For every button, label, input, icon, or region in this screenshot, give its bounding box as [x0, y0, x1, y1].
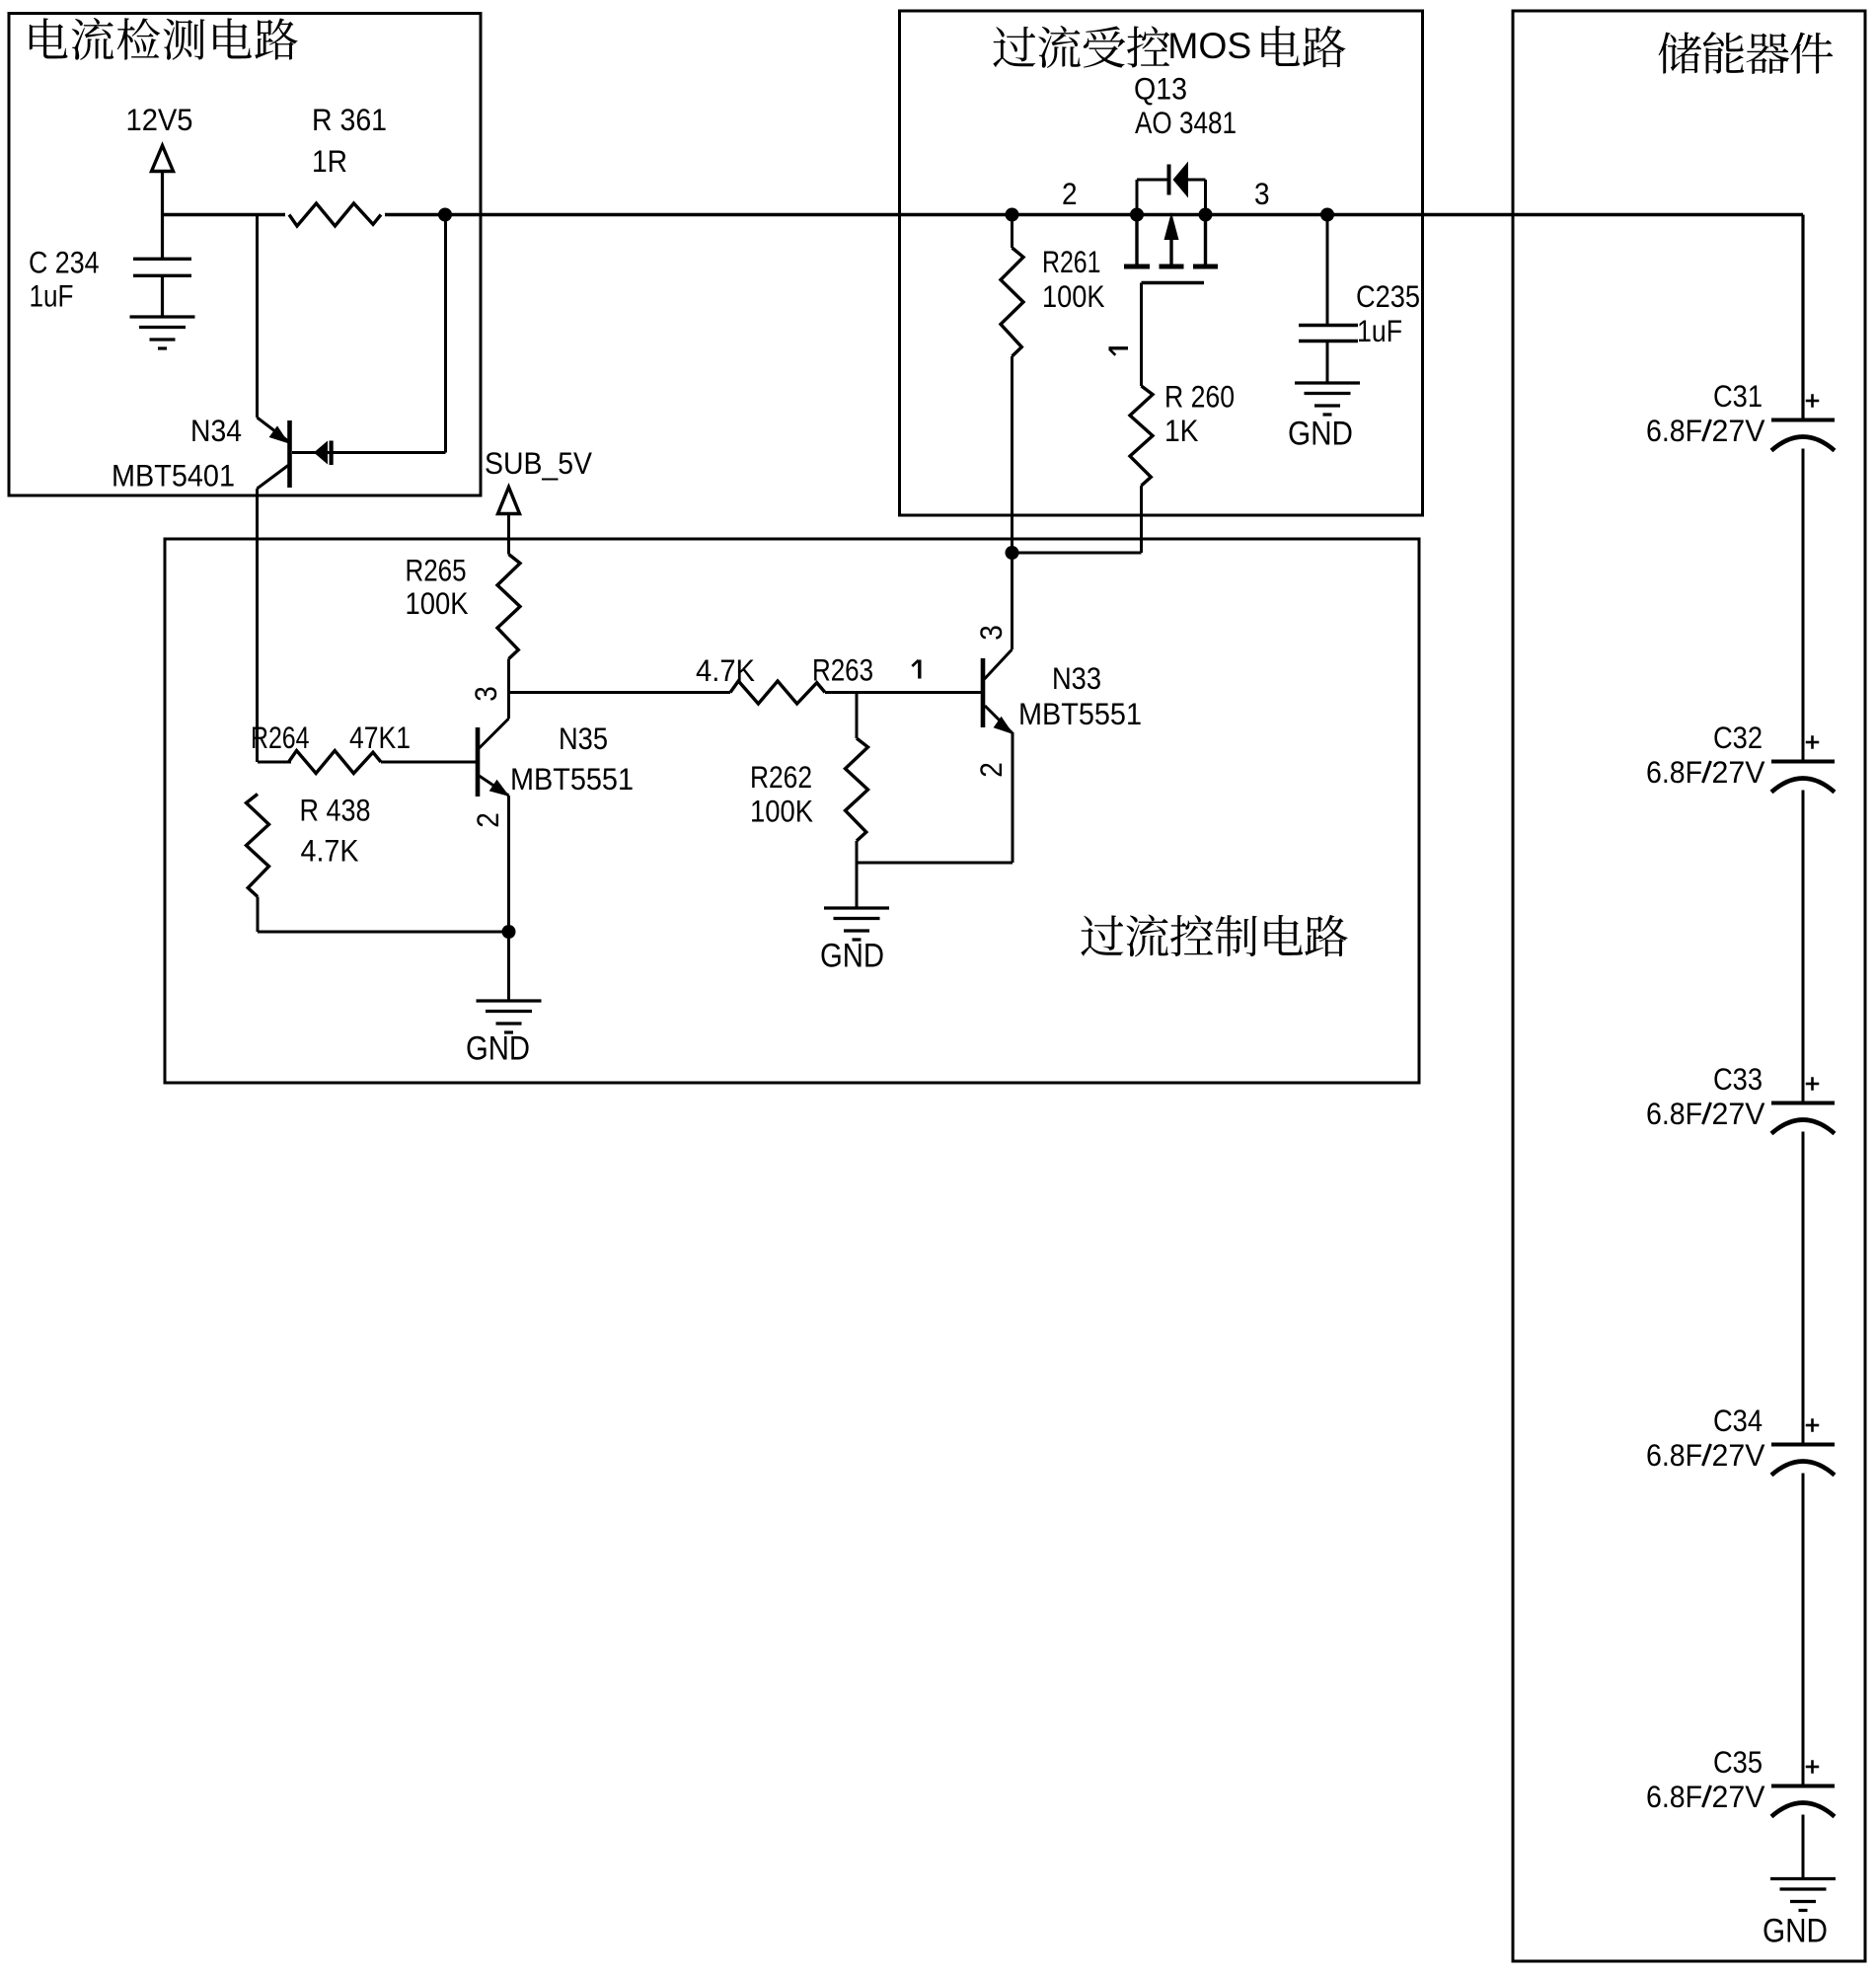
capacitor C33 6.8F/27V [1771, 1103, 1835, 1134]
label R265 refdes [406, 554, 467, 588]
title: 电流检测电路 [30, 18, 298, 60]
capacitor C235 [1299, 326, 1358, 342]
svg-text:3: 3 [1254, 177, 1270, 211]
label C34 value 6.8F/27V [1646, 1438, 1702, 1473]
plus mark C33 [1806, 1077, 1820, 1091]
wire N34 base [292, 451, 446, 454]
svg-text:1K: 1K [1164, 414, 1199, 448]
wire N33 emitter down [1012, 732, 1014, 863]
N33 emitter diagonal with arrow [985, 706, 1013, 733]
label Q13 part [1135, 106, 1237, 140]
label C234 value [30, 279, 74, 314]
label C33 refdes [1713, 1062, 1763, 1097]
svg-text:100K: 100K [406, 586, 469, 621]
label GND (storage) [1763, 1912, 1828, 1949]
svg-text:1uF: 1uF [30, 279, 74, 314]
wire base node down to R262 [856, 693, 859, 739]
node R261 top junction [1006, 208, 1019, 222]
svg-text:N33: N33 [1052, 661, 1101, 696]
wire N35 collector [507, 693, 510, 720]
svg-text:2: 2 [471, 812, 505, 828]
wire to C32 [1802, 449, 1805, 762]
resistor R265 [497, 555, 520, 659]
svg-text:12V5: 12V5 [126, 103, 193, 137]
wire node to R260 branch [1013, 552, 1142, 555]
wire bus to C235 [1326, 215, 1329, 326]
svg-text:N35: N35 [559, 722, 608, 756]
label R263 value [696, 653, 755, 688]
wire 12V5 stem [161, 172, 164, 215]
label C35 value 6.8F/27V [1646, 1780, 1702, 1814]
wire N35 emitter down [507, 796, 510, 932]
label N33 part [1018, 697, 1142, 731]
N34 emitter diagonal with arrow [258, 418, 289, 441]
svg-text:MBT5401: MBT5401 [112, 459, 235, 494]
svg-text:27V: 27V [1712, 1780, 1765, 1814]
svg-text:R 361: R 361 [312, 103, 387, 137]
node junction R361 right [438, 208, 452, 222]
label R361 value [312, 144, 347, 179]
label C31 value 6.8F/27V [1646, 414, 1702, 448]
svg-text:27V: 27V [1712, 1097, 1765, 1131]
label N34 refdes [190, 414, 242, 448]
wire bus corner down into storage box [1801, 215, 1804, 422]
ground under C234 [130, 317, 195, 348]
svg-text:27V: 27V [1712, 755, 1765, 790]
svg-text:R265: R265 [406, 554, 467, 588]
svg-text:SUB_5V: SUB_5V [485, 446, 592, 481]
pin 3 label N35 (rotated) [469, 686, 503, 702]
svg-text:2: 2 [1062, 177, 1078, 211]
ground bottom of storage box [1770, 1879, 1836, 1911]
pin 2 label N33 (rotated) [974, 762, 1009, 778]
svg-text:R 438: R 438 [300, 794, 371, 828]
label C32 value 6.8F/27V [1646, 755, 1702, 790]
label R263 refdes [812, 653, 873, 688]
svg-text:6.8F: 6.8F [1646, 414, 1702, 448]
wire N34 collector down to R264 node [256, 489, 259, 762]
box: current detection circuit (电流检测电路) [9, 14, 481, 496]
transistor N33 MBT5551 (NPN) [981, 658, 986, 727]
resistor R361 [285, 200, 385, 229]
resistor R261 [1001, 248, 1023, 356]
wire to C35 [1802, 1474, 1805, 1786]
label R264 value [349, 721, 411, 755]
svg-text:GND: GND [1763, 1912, 1828, 1949]
capacitor C31 6.8F/27V [1771, 420, 1835, 451]
wire main bus [163, 213, 1804, 217]
plus mark C32 [1806, 735, 1820, 749]
label R262 refdes [750, 760, 812, 795]
svg-text:R 260: R 260 [1164, 380, 1235, 415]
Q13 body diode triangle [1173, 162, 1189, 198]
wire to R264 [258, 761, 291, 764]
svg-text:R261: R261 [1042, 245, 1101, 279]
label N35 refdes [559, 722, 608, 756]
wire C234 to ground [161, 275, 164, 317]
wire C35 to ground [1802, 1815, 1805, 1879]
ground under N35 [477, 1001, 542, 1032]
box: overcurrent controlled MOS circuit (过流受控MOS电路) [900, 11, 1423, 515]
svg-text:6.8F: 6.8F [1646, 755, 1702, 790]
svg-text:100K: 100K [750, 795, 813, 829]
node Q13 drain junction [1199, 208, 1213, 222]
svg-text:47K1: 47K1 [349, 721, 411, 755]
Q13 gate [1142, 281, 1205, 284]
svg-text:C34: C34 [1713, 1404, 1763, 1438]
wire R265 to N35 collector node [507, 659, 510, 693]
resistor R262 [846, 738, 868, 841]
label C35 refdes [1713, 1745, 1763, 1780]
wire N34 emitter up to bus [256, 215, 259, 418]
wire SUB_5V stem [507, 514, 510, 555]
wire R262/N33 emitter link [857, 862, 1013, 865]
svg-text:100K: 100K [1042, 279, 1105, 314]
node gate-drive junction [1006, 546, 1019, 560]
resistor R263 [730, 681, 825, 704]
svg-text:R262: R262 [750, 760, 812, 795]
svg-text:C31: C31 [1713, 379, 1763, 414]
wire to C33 [1802, 791, 1805, 1103]
svg-text:2: 2 [974, 762, 1009, 778]
title part3: 电路 [1261, 26, 1345, 67]
wire R263 to N33 base [825, 691, 982, 694]
label R260 value [1164, 414, 1199, 448]
svg-text:MOS: MOS [1167, 26, 1251, 66]
net label SUB_5V [485, 446, 592, 481]
label GND (N35) [466, 1029, 530, 1067]
label R260 refdes [1164, 380, 1235, 415]
svg-text:6.8F: 6.8F [1646, 1780, 1702, 1814]
node C235 top [1320, 208, 1334, 222]
label R438 value [301, 834, 359, 869]
label C32 refdes [1713, 721, 1763, 755]
label R262 value [750, 795, 813, 829]
arrow on N34 base wire [314, 441, 328, 465]
svg-text:C33: C33 [1713, 1062, 1763, 1097]
pin 1 label N33 (drawn) [912, 660, 920, 679]
label Q13 refdes [1134, 72, 1187, 107]
wire N35 collector to R263 [509, 691, 731, 694]
label R261 refdes [1042, 245, 1101, 279]
label GND (C235) [1288, 415, 1353, 452]
capacitor C32 6.8F/27V [1771, 762, 1835, 793]
power symbol SUB_5V arrow [498, 488, 520, 514]
wire C235 to ground [1326, 342, 1329, 385]
wire to C234 [161, 215, 164, 260]
wire to C31 [1802, 420, 1805, 422]
wire R438 down [257, 897, 260, 933]
title: 过流控制电路 [1081, 914, 1347, 956]
box: overcurrent control circuit (过流控制电路) [165, 539, 1419, 1083]
wire R438 to emitter node [258, 931, 509, 934]
svg-text:C235: C235 [1356, 279, 1420, 314]
transistor N34 MBT5401 (PNP) [287, 420, 292, 488]
svg-text:6.8F: 6.8F [1646, 1097, 1702, 1131]
svg-text:1uF: 1uF [1357, 314, 1402, 348]
label N34 part [112, 459, 235, 494]
Q13 body diode branch [1136, 180, 1139, 215]
capacitor C234 [133, 259, 191, 275]
svg-text:1R: 1R [312, 144, 347, 179]
wire bus to R261 [1011, 215, 1013, 249]
label C33 value 6.8F/27V [1646, 1097, 1702, 1131]
wire R262 down [856, 841, 859, 863]
Q13 substrate arrow [1164, 212, 1179, 240]
svg-text:3: 3 [974, 625, 1009, 641]
transistor N35 MBT5551 (NPN) [476, 727, 481, 797]
wire to ground (R262) [856, 863, 859, 908]
label C34 refdes [1713, 1404, 1763, 1438]
wire R260 to node [1013, 552, 1142, 555]
plus mark C34 [1806, 1418, 1820, 1432]
svg-text:N34: N34 [190, 414, 242, 448]
label R361 refdes [312, 103, 387, 137]
svg-text:27V: 27V [1712, 414, 1765, 448]
Q13 body diode cathode bar [1167, 165, 1171, 195]
N35 collector diagonal [480, 719, 509, 748]
svg-text:MBT5551: MBT5551 [510, 762, 634, 797]
pin 2 label N35 (rotated) [471, 812, 505, 828]
ground under R262 [824, 908, 889, 940]
wire node down to N33 collector [1011, 553, 1013, 649]
wire junction down [444, 215, 447, 453]
label R264 refdes [251, 721, 310, 755]
svg-text:C35: C35 [1713, 1745, 1763, 1780]
wire node to ground [507, 932, 510, 1001]
svg-text:4.7K: 4.7K [696, 653, 755, 688]
node emitter/R438 junction [502, 925, 516, 939]
svg-text:GND: GND [466, 1029, 530, 1067]
net label 12V5 [126, 103, 193, 137]
label C31 refdes [1713, 379, 1763, 414]
svg-text:MBT5551: MBT5551 [1018, 697, 1142, 731]
wire R261 down to control box node [1011, 356, 1013, 553]
svg-text:3: 3 [469, 686, 503, 702]
resistor R260 [1130, 386, 1153, 486]
svg-text:AO 3481: AO 3481 [1135, 106, 1237, 140]
N34 collector diagonal [258, 466, 289, 490]
ground under C235 [1295, 383, 1360, 415]
title part1: 过流受控 [993, 26, 1169, 68]
label N33 refdes [1052, 661, 1101, 696]
title part2: MOS [1167, 26, 1251, 66]
svg-text:GND: GND [820, 937, 884, 974]
svg-text:C32: C32 [1713, 721, 1763, 755]
svg-text:C 234: C 234 [29, 246, 100, 280]
capacitor C35 6.8F/27V [1771, 1786, 1835, 1817]
pin 1 label Q13 (rotated, drawn) [1109, 348, 1129, 355]
svg-text:27V: 27V [1712, 1438, 1765, 1473]
power symbol 12V5 arrow [152, 146, 174, 172]
pin 3 label N33 (rotated) [974, 625, 1009, 641]
label C235 refdes [1356, 279, 1420, 314]
title: 储能器件 [1659, 32, 1834, 74]
resistor R438 [247, 795, 269, 897]
N33 collector diagonal [985, 649, 1013, 679]
wire R264 to N35 base [381, 761, 478, 764]
label R438 refdes [300, 794, 371, 828]
label GND (R262) [820, 937, 884, 974]
label R261 value [1042, 279, 1105, 314]
svg-text:Q13: Q13 [1134, 72, 1187, 107]
svg-text:4.7K: 4.7K [301, 834, 359, 869]
wire to C34 [1802, 1132, 1805, 1445]
Q13 MOSFET body [1137, 215, 1206, 266]
label N35 part [510, 762, 634, 797]
wire R260 down [1140, 486, 1143, 553]
resistor R264 [289, 751, 382, 774]
pin 3 label Q13 [1254, 177, 1270, 211]
node Q13 source junction [1130, 208, 1144, 222]
N35 emitter diagonal with arrow [480, 776, 509, 796]
label C235 value [1357, 314, 1402, 348]
box: energy storage device (储能器件) [1513, 11, 1865, 1961]
label R265 value [406, 586, 469, 621]
label C234 refdes [29, 246, 100, 280]
plus mark C31 [1806, 394, 1820, 408]
svg-text:6.8F: 6.8F [1646, 1438, 1702, 1473]
svg-text:R264: R264 [251, 721, 310, 755]
svg-text:GND: GND [1288, 415, 1353, 452]
plus mark C35 [1806, 1760, 1820, 1774]
pin 2 label Q13 [1062, 177, 1078, 211]
svg-text:R263: R263 [812, 653, 873, 688]
capacitor C34 6.8F/27V [1771, 1445, 1835, 1476]
